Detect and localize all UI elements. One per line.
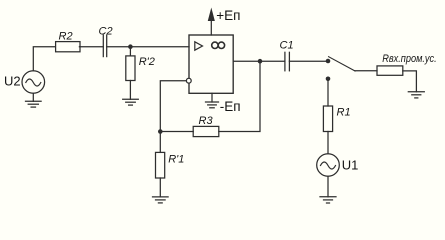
svg-text:R'1: R'1 (168, 153, 184, 165)
wire R'1 from node down (159, 132, 161, 153)
svg-text:R'2: R'2 (139, 56, 155, 68)
node (switch throw contact) (326, 77, 331, 82)
resistor Rvx.prom.us. (377, 53, 437, 76)
wire U2 to R2 (33, 47, 55, 71)
ground (under R'1) (153, 197, 169, 203)
wire C1 to switch node (289, 60, 328, 62)
resistor R'1 (156, 152, 185, 178)
wire switch to Rvx resistor (355, 70, 377, 72)
ground (under R'2) (123, 99, 139, 105)
wire R3 to output node (219, 61, 260, 131)
svg-text:R1: R1 (337, 106, 351, 118)
wire Rvx to ground (403, 71, 417, 92)
inverting input pin circle (186, 78, 191, 83)
svg-text:Rвх.пром.ус.: Rвх.пром.ус. (382, 53, 437, 65)
wire R'2 to ground (129, 81, 131, 100)
node (junction after C2) (128, 44, 133, 49)
wire C2 to op-amp input (107, 46, 189, 48)
ground (right side) (408, 92, 424, 98)
source U2 (4, 71, 45, 94)
svg-text:U1: U1 (342, 158, 359, 173)
svg-text:U2: U2 (4, 74, 21, 89)
svg-text:R2: R2 (59, 30, 73, 42)
svg-text:C2: C2 (99, 25, 113, 37)
resistor R1 (323, 106, 350, 132)
svg-text:C1: C1 (280, 40, 294, 52)
ground (under U1) (320, 197, 336, 203)
svg-text:+Еп: +Еп (216, 8, 240, 23)
wire contact to R1 (327, 79, 329, 106)
wire R1 to U1 (327, 132, 329, 154)
node (switch pole) (326, 59, 331, 64)
wire op-amp output to C1 (234, 60, 285, 62)
resistor R3 (193, 115, 219, 137)
node (feedback junction) (158, 129, 163, 134)
wire R'1 to ground (159, 178, 161, 197)
wire U1 to ground (327, 176, 329, 197)
wire R2 to C2 (79, 46, 103, 48)
capacitor C1 (280, 40, 294, 71)
resistor R2 (56, 30, 80, 52)
wire inverting input to feedback node (160, 81, 186, 132)
wire node to R3 (160, 131, 193, 133)
resistor R'2 (126, 56, 155, 81)
op-amp (189, 35, 233, 93)
svg-text:R3: R3 (199, 115, 214, 127)
svg-text:-Еп: -Еп (220, 99, 241, 114)
node (output junction) (258, 59, 263, 64)
capacitor C2 (99, 25, 113, 56)
-Ep supply with ground (206, 93, 241, 114)
ground (under U2) (26, 93, 42, 107)
+Ep supply (208, 8, 240, 35)
source U1 (317, 154, 359, 177)
wire node to R'2 (129, 47, 131, 56)
switch arm (329, 57, 355, 71)
